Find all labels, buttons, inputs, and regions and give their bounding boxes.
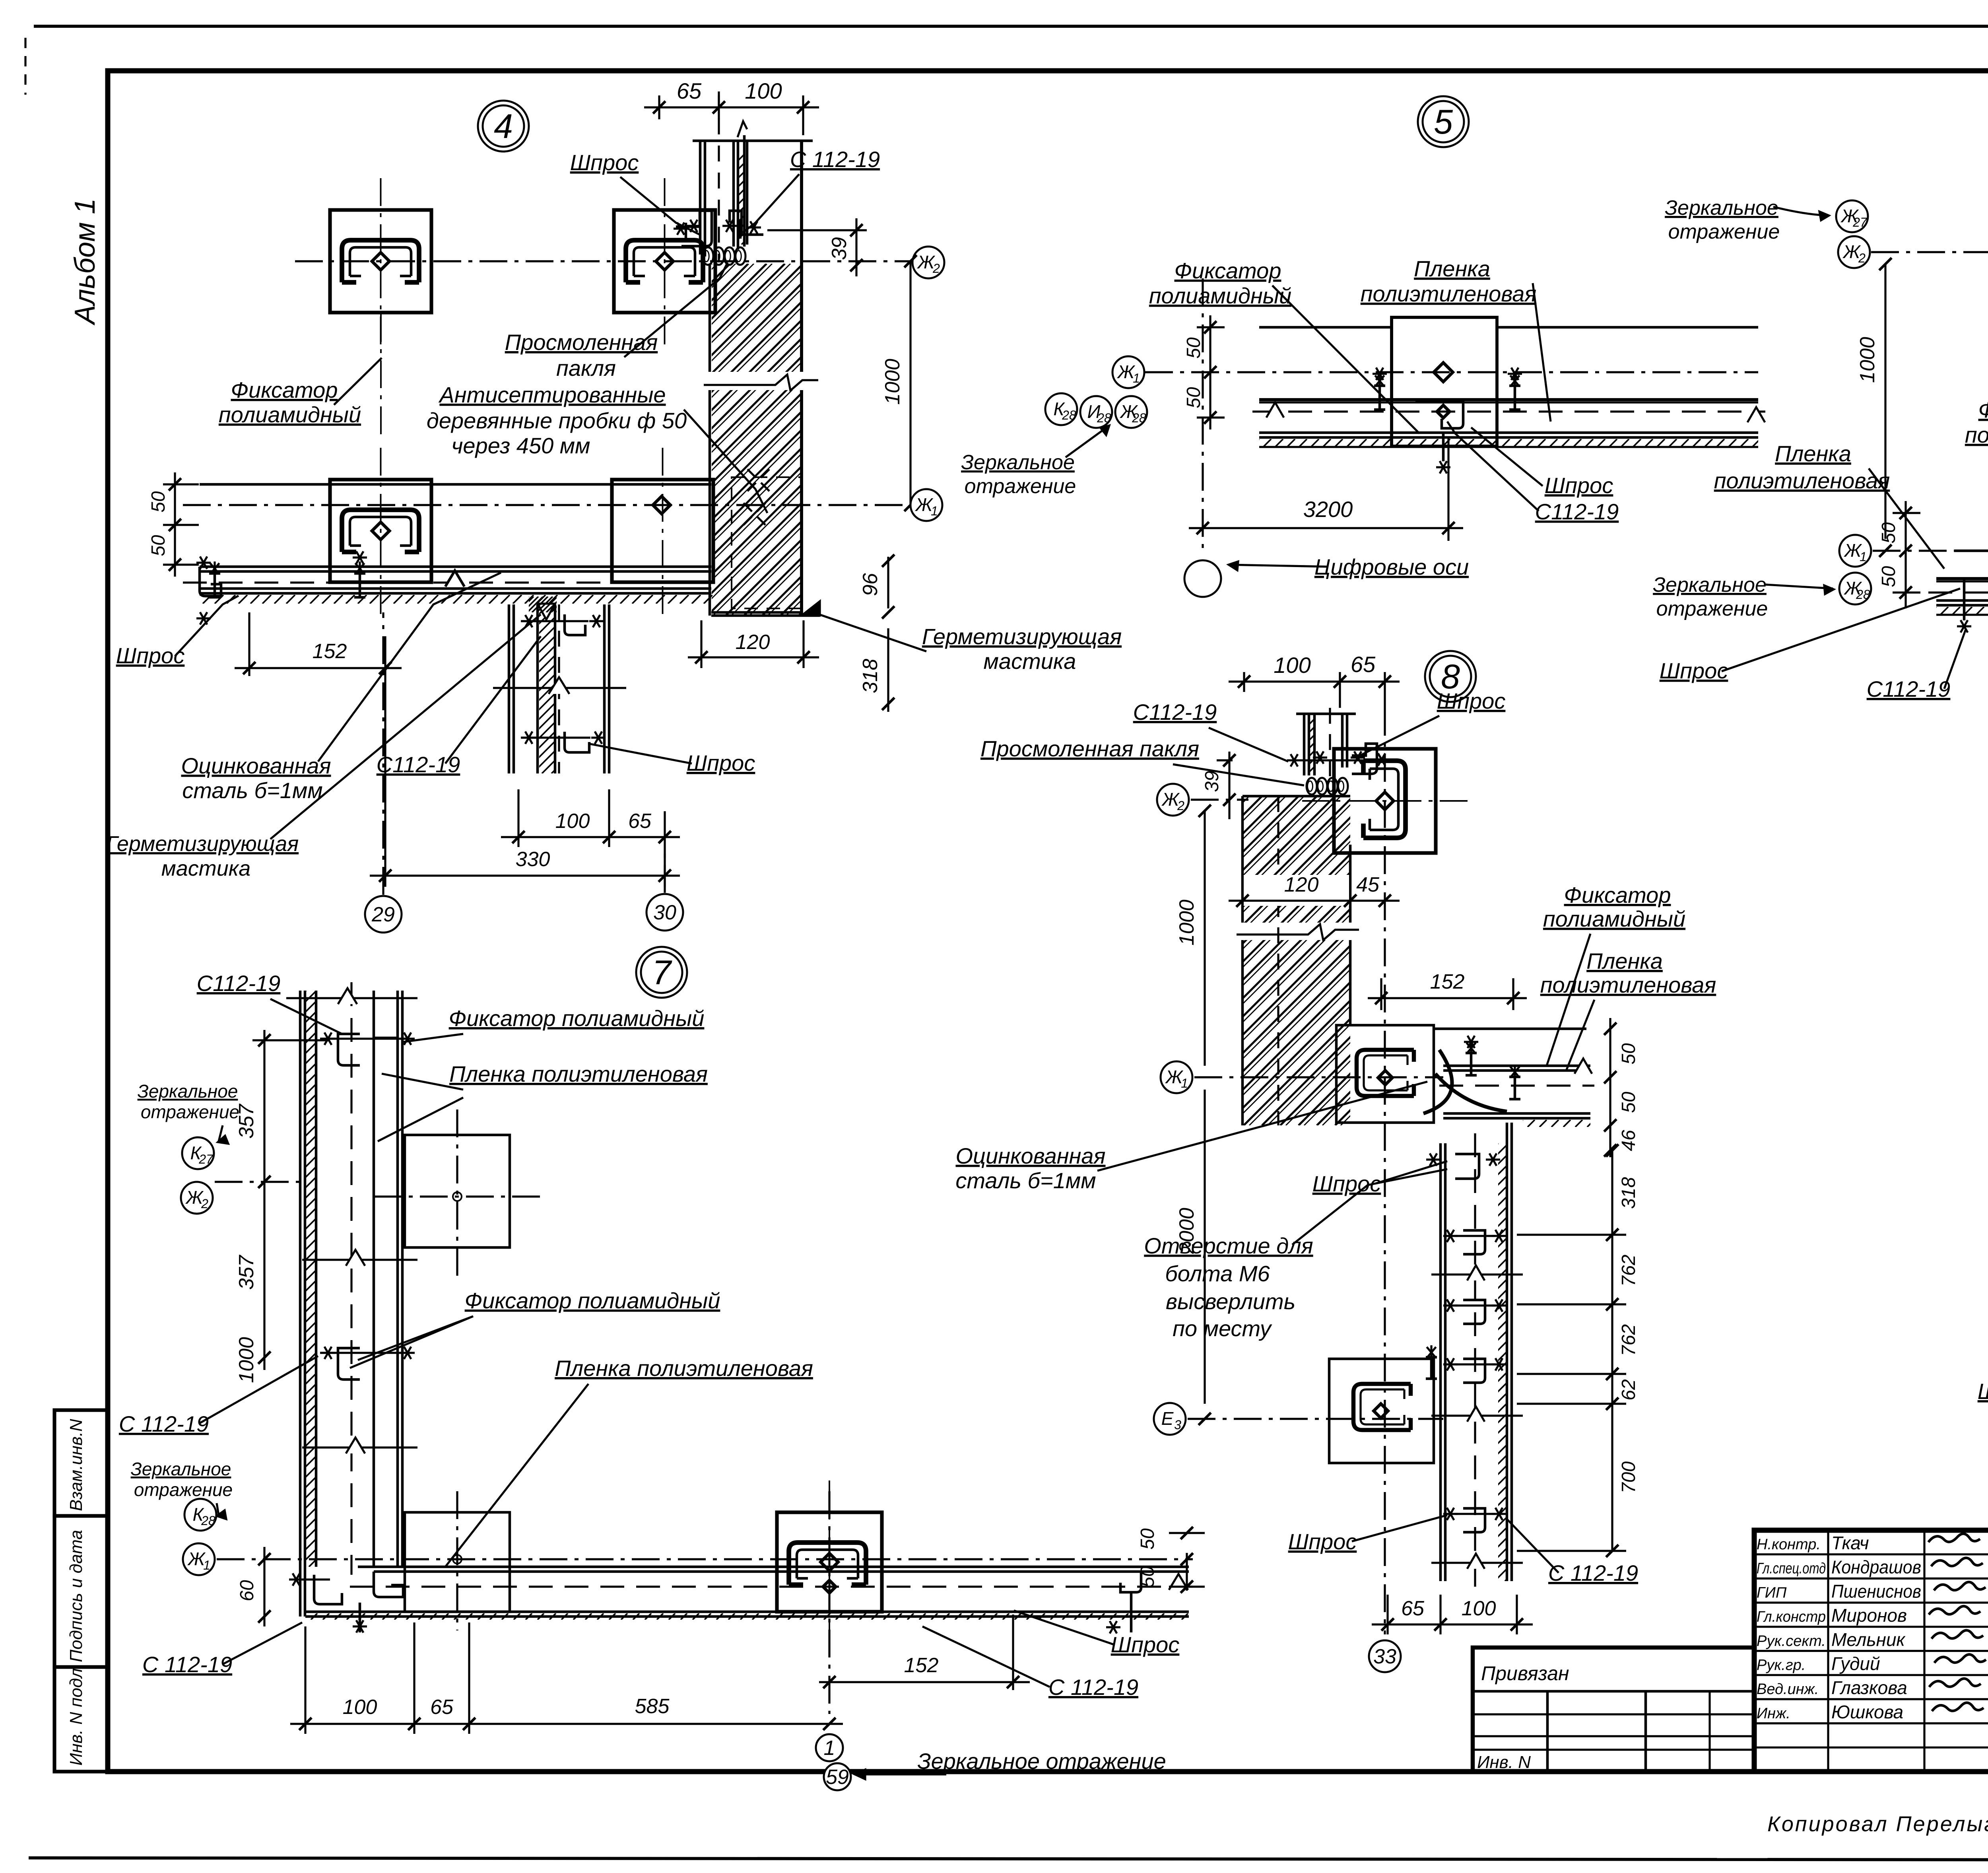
break mid2 node 7 <box>302 1446 417 1448</box>
privyazan table <box>1473 1648 1754 1772</box>
circle 33 node 8 <box>1369 1640 1401 1672</box>
svg-text:С 112-19: С 112-19 <box>119 1411 209 1436</box>
svg-text:1: 1 <box>203 1558 210 1572</box>
svg-text:Цифровые оси: Цифровые оси <box>1314 554 1469 579</box>
zinc steel curve node 8 <box>1423 1050 1452 1113</box>
dashed wood plug node 4 <box>732 477 802 608</box>
wall foot mastic node 4 <box>802 601 820 616</box>
svg-text:Герметизирующая: Герметизирующая <box>106 832 299 856</box>
circle 30 <box>646 894 683 931</box>
left end clip node 4 lower <box>200 567 221 596</box>
clip node 8 v5 <box>1463 1508 1485 1532</box>
axis Zh1 node 5 <box>1145 371 1758 373</box>
svg-text:Альбом 1: Альбом 1 <box>69 198 101 326</box>
svg-text:Миронов: Миронов <box>1831 1605 1907 1626</box>
svg-text:50: 50 <box>1183 337 1204 359</box>
svg-text:585: 585 <box>635 1695 670 1718</box>
svg-text:28: 28 <box>201 1514 215 1528</box>
dim 1000 node 8 <box>1204 811 1206 1066</box>
svg-text:50: 50 <box>148 491 169 513</box>
mullion node 8 <box>1303 714 1306 775</box>
svg-text:Пленка: Пленка <box>1586 948 1663 973</box>
axis Zh2 line node 4 <box>295 260 911 262</box>
central plate node 5 <box>1392 317 1497 446</box>
right dims node 8 <box>1611 1150 1613 1551</box>
svg-text:полиамидный: полиамидный <box>219 402 361 427</box>
clip node 8 v1 <box>1455 1154 1479 1179</box>
panel node 5 <box>1259 326 1392 329</box>
dim 39 node 4 <box>767 229 867 231</box>
svg-text:30: 30 <box>653 901 676 924</box>
svg-text:Подпись и дата: Подпись и дата <box>66 1530 86 1662</box>
svg-text:Зеркальное: Зеркальное <box>1653 573 1767 596</box>
svg-text:Фиксатор: Фиксатор <box>1175 258 1281 283</box>
svg-text:Копировал Перелыгина: Копировал Перелыгина <box>1767 1812 1988 1836</box>
plate node 8 lower <box>1329 1359 1434 1463</box>
lower panel node 4 <box>200 483 711 486</box>
svg-text:ГИП: ГИП <box>1757 1584 1787 1601</box>
svg-text:Привязан: Привязан <box>1481 1662 1569 1685</box>
axis circle Zh27 node 6 <box>1836 200 1868 232</box>
dim 1000 node 4 <box>909 261 911 505</box>
clip right node 7 <box>1120 1572 1141 1592</box>
axis circle Zh2 node 6 <box>1838 236 1870 268</box>
svg-text:27: 27 <box>198 1152 214 1166</box>
dim 100 65 node 8 <box>1243 672 1245 692</box>
svg-text:50: 50 <box>1137 1528 1158 1550</box>
svg-text:50: 50 <box>1618 1092 1639 1113</box>
svg-text:Взам.инв.N: Взам.инв.N <box>66 1419 86 1511</box>
svg-text:1: 1 <box>824 1737 835 1760</box>
svg-text:Пленка: Пленка <box>1414 256 1490 281</box>
digit axis circle node 5 <box>1184 560 1221 597</box>
bolt asterisks node 4 top <box>674 227 688 229</box>
svg-text:отражение: отражение <box>965 475 1076 498</box>
corner clip node 7 <box>314 1575 342 1604</box>
vertical panel node 8 lower <box>1439 1143 1442 1581</box>
svg-text:1000: 1000 <box>881 359 904 405</box>
svg-text:С 112-19: С 112-19 <box>142 1652 232 1677</box>
svg-text:2: 2 <box>1858 251 1866 265</box>
wall axis node 8 <box>1277 796 1279 1125</box>
svg-text:120: 120 <box>736 631 770 654</box>
svg-text:65: 65 <box>430 1696 454 1719</box>
dim 120 45 node 8 <box>1244 875 1349 906</box>
plate B node 4 <box>614 178 715 344</box>
dims 50 50 node 5 <box>1209 315 1211 429</box>
svg-text:Мельник: Мельник <box>1831 1629 1906 1650</box>
svg-text:Инв. N: Инв. N <box>1477 1753 1531 1772</box>
dim 2000 node 8 <box>1204 1090 1206 1404</box>
dim 100 65 node 4 lower <box>517 789 519 847</box>
break lower mullion 4 <box>493 687 626 689</box>
svg-text:болта М6: болта М6 <box>1165 1261 1270 1286</box>
dim 39 node 8 <box>1217 759 1233 761</box>
panel right break node 8 <box>1574 1059 1592 1074</box>
hatch strip in mullion 4 <box>645 151 844 245</box>
axis circle Zh1 node 4 <box>911 489 942 521</box>
dim 65 100 node 8 bottom <box>1386 1595 1388 1634</box>
axis circle K28 node 7 <box>184 1499 216 1531</box>
digit axis line node 5 <box>1202 278 1204 551</box>
svg-text:100: 100 <box>555 810 590 833</box>
svg-text:Рук.сект.: Рук.сект. <box>1757 1633 1826 1650</box>
clip top lower mullion 4 <box>565 614 585 635</box>
svg-text:7: 7 <box>652 954 672 992</box>
svg-text:Кондрашов: Кондрашов <box>1831 1557 1921 1578</box>
svg-text:Отверстие для: Отверстие для <box>1144 1233 1313 1258</box>
axis Zh1 node 4 <box>183 504 911 506</box>
svg-text:65: 65 <box>1351 652 1376 677</box>
axis circle Zh1 node 5 <box>1112 356 1144 388</box>
plate A node 4 <box>330 178 431 344</box>
svg-text:Н.контр.: Н.контр. <box>1757 1536 1821 1553</box>
sheet top edge line <box>34 25 1988 28</box>
axis circles K28 I28 Zh28 node 5 <box>1045 393 1077 425</box>
plate A axis extension node 4 <box>380 314 382 441</box>
clip bottom lower mullion 4 <box>565 732 589 752</box>
dim 318 node 4 <box>887 628 889 712</box>
svg-text:Оцинкованная: Оцинкованная <box>181 753 331 778</box>
wall hatch node 8 <box>1241 796 1244 1125</box>
svg-text:357: 357 <box>235 1255 258 1290</box>
svg-text:50: 50 <box>1618 1043 1639 1065</box>
svg-text:Фиксатор полиамидный: Фиксатор полиамидный <box>465 1288 720 1313</box>
svg-text:Пленка полиэтиленовая: Пленка полиэтиленовая <box>449 1061 708 1086</box>
plate plan node 7 upper <box>405 1135 510 1247</box>
svg-text:полиэтиленовая: полиэтиленовая <box>1540 972 1716 997</box>
vertical panel node 7 <box>299 991 302 1617</box>
axis circle Zh28 node 6 <box>1839 573 1871 604</box>
svg-text:деревянные пробки ф 50: деревянные пробки ф 50 <box>427 408 687 433</box>
svg-text:отражение: отражение <box>134 1479 233 1500</box>
circle 1 node 7 <box>816 1734 843 1761</box>
dim 3200 node 5 <box>1189 527 1463 529</box>
break mid1 node 7 <box>302 1259 417 1261</box>
svg-text:1000: 1000 <box>235 1337 258 1383</box>
wall hatch node 4 <box>709 264 711 616</box>
svg-text:65: 65 <box>628 810 652 833</box>
panel right break node 5 <box>1747 407 1765 422</box>
svg-text:Е: Е <box>1161 1408 1174 1429</box>
title block outer border <box>1754 1530 1988 1772</box>
svg-text:отражение: отражение <box>141 1102 239 1122</box>
svg-text:100: 100 <box>1274 653 1310 678</box>
dim 330 node 4 lower <box>370 874 680 876</box>
plate plan node 7 lower <box>405 1512 510 1612</box>
svg-text:100: 100 <box>343 1696 377 1719</box>
dims 50 50 node 6 <box>1905 501 1906 608</box>
svg-text:65: 65 <box>677 78 702 103</box>
dim 152 node 4 lower <box>248 612 250 676</box>
axis circle Zh1 node 7 <box>183 1543 215 1575</box>
svg-text:152: 152 <box>313 640 347 663</box>
dim 120 node 4 <box>700 620 702 668</box>
axis Zh2 line node 6 <box>1871 251 1988 253</box>
svg-text:Фиксатор: Фиксатор <box>231 377 338 402</box>
building axis node 8 <box>1384 708 1386 1634</box>
dims 50 50 node 7 right <box>1186 1553 1188 1591</box>
svg-text:Фиксатор: Фиксатор <box>1978 397 1988 422</box>
plate D node 4 lower <box>612 448 713 614</box>
svg-text:Глазкова: Глазкова <box>1831 1677 1907 1698</box>
clip node 8 v4 <box>1463 1359 1485 1383</box>
svg-text:Вед.инж.: Вед.инж. <box>1757 1681 1819 1698</box>
top break node 7 <box>286 997 417 999</box>
svg-text:Шпрос: Шпрос <box>1437 688 1506 713</box>
svg-text:Гл.констр: Гл.констр <box>1757 1609 1826 1625</box>
svg-text:2: 2 <box>201 1197 208 1211</box>
svg-text:50: 50 <box>1137 1566 1158 1587</box>
svg-text:мастика: мастика <box>161 857 251 880</box>
svg-text:39: 39 <box>1202 771 1223 792</box>
svg-text:1000: 1000 <box>1856 337 1879 383</box>
svg-text:59: 59 <box>826 1766 849 1789</box>
clip top node 7 <box>338 1034 360 1065</box>
svg-text:Просмоленная: Просмоленная <box>505 330 658 355</box>
svg-text:Инж.: Инж. <box>1757 1705 1790 1722</box>
clip node 8 v3 <box>1463 1300 1485 1324</box>
svg-text:2: 2 <box>1177 799 1184 813</box>
personnel table rows <box>1754 1553 1988 1555</box>
clip node 8 top <box>1352 744 1377 774</box>
svg-text:1: 1 <box>931 504 938 518</box>
svg-text:Шпрос: Шпрос <box>1288 1529 1357 1554</box>
left margin box Inv <box>54 1667 108 1772</box>
panel left break node 5 <box>1266 402 1284 418</box>
mullion of node 4 <box>699 141 702 255</box>
axis circle K27 node 7 <box>182 1137 214 1169</box>
circle 59 node 7 <box>824 1763 851 1790</box>
svg-text:28: 28 <box>1132 411 1146 425</box>
svg-text:С112-19: С112-19 <box>1133 699 1217 725</box>
svg-text:Шпрос: Шпрос <box>570 150 639 175</box>
svg-text:28: 28 <box>1097 411 1111 425</box>
axis circle Zh1 node 8 <box>1161 1061 1192 1093</box>
svg-text:Шпрос: Шпрос <box>1111 1632 1180 1657</box>
svg-text:полиамидный: полиамидный <box>1149 283 1291 308</box>
breaks node 8 vertical <box>1431 1273 1523 1275</box>
svg-text:высверлить: высверлить <box>1166 1289 1295 1314</box>
glazing clip at mullion foot 4 <box>676 211 712 246</box>
svg-text:1000: 1000 <box>1175 900 1198 946</box>
svg-text:3200: 3200 <box>1303 497 1353 522</box>
node circle 5 <box>1418 96 1469 147</box>
svg-text:Пшениснов: Пшениснов <box>1831 1581 1921 1601</box>
svg-text:Герметизирующая: Герметизирующая <box>922 624 1122 649</box>
svg-text:100: 100 <box>745 78 782 103</box>
break mark lower panel node 4 <box>445 571 464 587</box>
svg-text:мастика: мастика <box>984 649 1076 674</box>
sheet bottom edge line <box>29 1858 1988 1860</box>
svg-text:Зеркальное: Зеркальное <box>1665 196 1778 220</box>
svg-text:Шпрос: Шпрос <box>1660 658 1728 683</box>
svg-text:С112-19: С112-19 <box>1535 499 1619 524</box>
svg-text:полиэтиленовая: полиэтиленовая <box>1361 281 1537 306</box>
svg-text:318: 318 <box>859 659 882 694</box>
svg-text:Зеркальное отражение: Зеркальное отражение <box>917 1749 1166 1774</box>
svg-text:С 112-19: С 112-19 <box>790 147 880 172</box>
mid bolt node 4 lower <box>354 562 365 597</box>
svg-text:через 450 мм: через 450 мм <box>451 433 590 458</box>
clip mid node 7 <box>338 1348 360 1379</box>
svg-text:Антисептированные: Антисептированные <box>438 382 666 407</box>
svg-text:45: 45 <box>1356 873 1380 896</box>
svg-text:Зеркальное: Зеркальное <box>138 1081 238 1102</box>
svg-text:27: 27 <box>1852 215 1868 229</box>
axis Zh1 node 6 <box>1873 550 1954 552</box>
left margin box Vzam <box>54 1410 108 1516</box>
plate node 8 mid <box>1336 1025 1434 1123</box>
svg-text:2000: 2000 <box>1175 1208 1198 1254</box>
svg-text:Зеркальное: Зеркальное <box>131 1459 231 1479</box>
svg-text:50: 50 <box>1183 387 1204 408</box>
svg-text:100: 100 <box>1462 1597 1496 1620</box>
svg-text:Оцинкованная: Оцинкованная <box>956 1143 1106 1168</box>
dim 60 node 7 <box>263 1547 265 1626</box>
svg-text:29: 29 <box>371 903 395 926</box>
node circle 7 <box>636 947 687 998</box>
svg-text:5: 5 <box>1434 103 1453 141</box>
svg-text:762: 762 <box>1618 1324 1639 1356</box>
svg-text:50: 50 <box>148 535 169 556</box>
axis line Zh1 node 7 <box>217 1558 1193 1560</box>
svg-text:Фиксатор: Фиксатор <box>1564 882 1671 907</box>
dim 152 node 8 <box>1380 978 1382 1010</box>
mastic wedge lower mullion 4 <box>538 604 555 620</box>
svg-text:сталь б=1мм: сталь б=1мм <box>182 778 322 803</box>
axis circle Zh2 node 8 <box>1157 784 1189 816</box>
svg-text:39: 39 <box>828 237 851 260</box>
axis circle Zh1 node 6 <box>1839 535 1871 567</box>
svg-text:46: 46 <box>1618 1130 1639 1151</box>
svg-text:Просмоленная пакля: Просмоленная пакля <box>980 736 1199 761</box>
svg-text:762: 762 <box>1618 1255 1639 1286</box>
svg-text:Юшкова: Юшкова <box>1831 1702 1903 1722</box>
plate node 8 upper <box>1302 749 1468 853</box>
left margin box Podpis <box>54 1516 108 1667</box>
svg-text:Шпрос: Шпрос <box>687 750 755 775</box>
node circle 4 <box>478 101 529 152</box>
svg-text:Рук.гр.: Рук.гр. <box>1757 1657 1806 1674</box>
dim 152 node 7 <box>1012 1615 1014 1690</box>
dim 65 100 top of node 4 <box>658 95 660 119</box>
right end node 7 <box>1169 1574 1188 1590</box>
dim 1000 node 6 <box>1884 264 1886 539</box>
svg-text:Зеркальное: Зеркальное <box>961 451 1075 474</box>
svg-text:152: 152 <box>1430 970 1465 993</box>
svg-text:120: 120 <box>1284 873 1319 896</box>
svg-text:Пленка полиэтиленовая: Пленка полиэтиленовая <box>555 1356 813 1381</box>
dim 357 357 node 7 <box>263 1030 265 1370</box>
svg-text:2: 2 <box>932 261 940 276</box>
sheet left edge stub <box>24 38 26 95</box>
svg-text:С112-19: С112-19 <box>197 971 281 996</box>
svg-text:330: 330 <box>516 848 550 871</box>
node circle 8 <box>1425 651 1476 702</box>
svg-text:полиамидный: полиамидный <box>1543 906 1685 931</box>
svg-text:Гудий: Гудий <box>1831 1653 1880 1674</box>
svg-text:65: 65 <box>1401 1597 1425 1620</box>
lower mullion node 4 <box>508 604 511 773</box>
svg-text:60: 60 <box>237 1580 258 1601</box>
svg-text:28: 28 <box>1856 587 1870 602</box>
svg-text:1: 1 <box>1860 550 1867 564</box>
svg-text:Ткач: Ткач <box>1831 1533 1869 1553</box>
axis circle E3 node 8 <box>1154 1403 1186 1435</box>
svg-text:96: 96 <box>859 573 882 596</box>
svg-text:62: 62 <box>1618 1379 1639 1400</box>
svg-text:4: 4 <box>494 107 513 146</box>
svg-text:28: 28 <box>1062 408 1076 422</box>
axis circle Zh2 node 4 <box>912 247 944 278</box>
svg-text:700: 700 <box>1618 1461 1639 1493</box>
svg-text:отражение: отражение <box>1656 597 1768 620</box>
dims 100 65 585 node 7 <box>304 1626 306 1734</box>
coil node 8 <box>1307 778 1317 795</box>
plate C node 4 lower <box>330 448 431 614</box>
circle 29 <box>365 896 402 933</box>
svg-text:33: 33 <box>1373 1645 1396 1668</box>
svg-text:полиамидный: полиамидный <box>1965 422 1988 447</box>
bolts node 5 <box>1374 374 1385 410</box>
svg-text:С 112-19: С 112-19 <box>1048 1675 1138 1700</box>
svg-text:Шпрос: Шпрос <box>1545 473 1613 498</box>
svg-text:1: 1 <box>1181 1076 1188 1090</box>
svg-text:152: 152 <box>904 1654 939 1677</box>
horizontal panel node 7 <box>358 1566 1189 1568</box>
svg-text:50: 50 <box>1878 522 1899 544</box>
plate C node 7 lower <box>777 1481 882 1644</box>
svg-text:318: 318 <box>1618 1177 1639 1209</box>
dims 50 50 46 node 8 <box>1609 1018 1611 1157</box>
svg-text:Гл.спец.отд: Гл.спец.отд <box>1757 1560 1826 1577</box>
svg-text:по месту: по месту <box>1173 1316 1272 1341</box>
personnel table columns <box>1827 1530 1829 1772</box>
svg-text:3: 3 <box>1174 1418 1181 1432</box>
svg-text:Пленка: Пленка <box>1775 441 1851 466</box>
svg-text:С112-19: С112-19 <box>1867 676 1951 701</box>
svg-text:сталь б=1мм: сталь б=1мм <box>955 1168 1096 1193</box>
svg-text:С112-19: С112-19 <box>377 752 460 777</box>
svg-text:С 112-19: С 112-19 <box>1548 1560 1638 1585</box>
axis circle Zh2 node 7 <box>181 1182 213 1214</box>
bolts node 8 panel <box>1466 1041 1477 1075</box>
coil node 4 <box>703 247 713 265</box>
svg-text:отражение: отражение <box>1668 220 1780 243</box>
svg-text:50: 50 <box>1878 566 1899 587</box>
lower panel node 6 <box>1954 550 1988 552</box>
dims 50 50 node 4 left <box>174 472 176 577</box>
svg-text:полиэтиленовая: полиэтиленовая <box>1714 468 1890 493</box>
svg-text:Фиксатор полиамидный: Фиксатор полиамидный <box>449 1006 705 1031</box>
svg-text:Шпрос: Шпрос <box>1978 1379 1988 1404</box>
clip node 8 v2 <box>1463 1230 1485 1254</box>
svg-text:Инв. N подл.: Инв. N подл. <box>66 1663 86 1766</box>
svg-text:1: 1 <box>1133 371 1140 385</box>
svg-text:пакля: пакля <box>556 356 616 381</box>
horizontal panel node 8 <box>1434 1028 1586 1030</box>
